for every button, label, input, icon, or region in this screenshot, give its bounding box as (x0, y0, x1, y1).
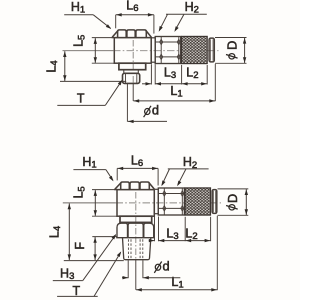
svg-text:T: T (77, 92, 85, 106)
svg-text:D: D (224, 41, 239, 50)
svg-text:L6: L6 (126, 0, 138, 14)
svg-text:T: T (72, 284, 80, 298)
svg-text:D: D (225, 194, 240, 203)
svg-text:F: F (73, 242, 87, 250)
svg-text:d: d (152, 103, 159, 118)
svg-text:d: d (163, 258, 170, 273)
